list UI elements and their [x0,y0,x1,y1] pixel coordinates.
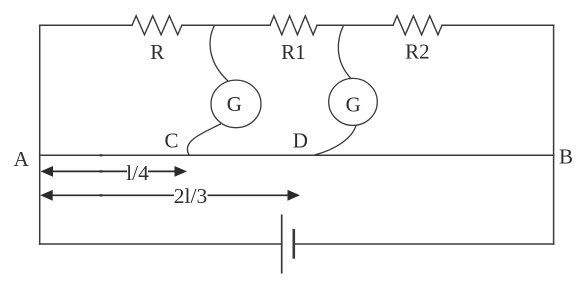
svg-text:R2: R2 [405,40,430,64]
wire top segment 4 (after R2) [442,24,554,26]
dimension line l/4 right part [148,170,184,172]
resistor R [132,16,182,35]
battery short plate (negative) [292,230,295,257]
dimension line 2l/3 left part [43,194,174,196]
wire top segment 3 (between R1 and R2) [317,24,393,26]
wire right vertical (B branch) [553,25,555,244]
junction tick on dimension line 2l/3 [100,194,103,196]
wire curve from top wire to galvanometer G1 [210,25,227,80]
svg-text:C: C [164,129,178,153]
arrowhead 2l/3 right [288,190,301,201]
wire curve from galvanometer G2 to node D [314,126,357,156]
svg-text:D: D [293,129,308,153]
wire bottom left of battery [40,243,282,245]
svg-text:R: R [150,40,164,64]
galvanometer G1 circle [211,80,261,128]
resistor R2 [393,16,442,35]
galvanometer G2 circle [329,78,378,125]
wire top segment 1 [40,24,132,26]
wire top segment 2 (between R and R1) [182,24,270,26]
wire curve from top wire to galvanometer G2 [338,25,351,78]
arrowhead l/4 right [175,166,188,177]
svg-text:G: G [227,92,242,116]
dimension line l/4 left part [43,170,127,172]
dimension line 2l/3 right part [208,194,289,196]
wire A-B (potentiometer wire) [40,154,554,156]
junction tick on dimension line l/4 [100,170,103,172]
svg-text:G: G [346,92,361,116]
svg-text:A: A [14,147,30,171]
svg-text:B: B [559,144,573,168]
junction tick on wire A-B [100,154,103,156]
svg-text:2l/3: 2l/3 [174,184,207,208]
arrowhead l/4 left [41,166,54,177]
resistor R1 [270,16,317,35]
arrowhead 2l/3 left [40,190,53,201]
svg-text:l/4: l/4 [126,161,149,185]
wire left vertical (A branch) [39,25,41,244]
wire curve from galvanometer G1 to node C [187,124,220,155]
svg-text:R1: R1 [281,40,306,64]
wire bottom right of battery [294,243,554,245]
battery long plate (positive) [281,215,283,272]
